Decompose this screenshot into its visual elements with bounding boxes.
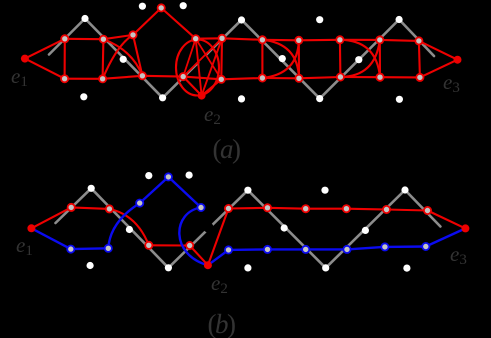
white dot isolated below peak 2 (b) <box>244 264 251 271</box>
edge B9-B10 (a) <box>380 76 420 78</box>
edge T8-B8 (a) <box>339 40 342 77</box>
edge T7-B7 (a) <box>298 40 300 78</box>
edge B5-B6 (a) <box>221 78 262 79</box>
blue edge B9-B10 (b) <box>385 245 426 248</box>
edge T1-B1 (a) <box>64 39 66 79</box>
edge B4-B5 (a) <box>183 77 221 80</box>
red edge T5-T6 (b) <box>229 207 268 210</box>
edge T3-P (a) <box>133 8 161 35</box>
red edge e2-T5 (b) <box>208 209 229 266</box>
vertex T2 (a), gray fill red ring <box>100 36 107 43</box>
white dot isolated below peak 1 (b) <box>87 262 94 269</box>
white dot isolated left of tent (a) <box>139 3 146 10</box>
edge T10-B10 (a) <box>419 41 420 78</box>
vertex B1 (a), gray fill red ring <box>61 75 68 82</box>
white dot zigzag mid 3 (b) <box>362 227 369 234</box>
blue edge e2-B5 (b) <box>208 250 229 265</box>
edge B3-B4 (a) <box>142 75 183 78</box>
vertex B4 (a), gray fill red ring <box>180 73 187 80</box>
blue edge B8-B9 (b) <box>347 247 385 250</box>
edge T6-B6 (a) <box>261 40 263 78</box>
vertex B2 (b) <box>105 245 112 252</box>
edge T4-e2 (a) <box>196 39 202 96</box>
vertex B7 (b) <box>302 246 309 253</box>
circle edge around e2 cluster (a) <box>176 40 219 96</box>
vertex T10 (a), gray fill red ring <box>415 37 422 44</box>
vertex T9 (a), gray fill red ring <box>376 36 383 43</box>
vertex B8 (b) <box>343 246 350 253</box>
hidden node gap on zigzag (b) <box>203 222 213 232</box>
endpoint vertex e3 (b), solid red <box>461 224 469 232</box>
vertex B7 (a), gray fill red ring <box>295 75 302 82</box>
curved diagonal T8-B9 / T9-B8 (a) (bulge upper-right) <box>340 40 380 77</box>
white dot isolated above valley 2 (a) <box>316 16 323 23</box>
vertex T9 (b) <box>383 206 390 213</box>
vertex T4 (a), gray fill red ring <box>192 35 199 42</box>
vertex B1 (b) <box>67 246 74 253</box>
edge T4-B5 (a) <box>196 39 222 80</box>
white dot isolated below peak 3 (a) <box>396 96 403 103</box>
edge T5-e2 (a) <box>202 38 222 95</box>
vertex B10 (b) <box>422 243 429 250</box>
red edge e1-T1 (b) <box>31 207 71 228</box>
gray zigzag chain, figure (a) <box>49 19 434 99</box>
edge B2-B3 (a) <box>103 76 143 79</box>
vertex T6 (a), gray fill red ring <box>259 36 266 43</box>
endpoint vertex e2 (a), solid red <box>198 92 206 100</box>
white dot zigzag mid 1 (a) <box>120 56 127 63</box>
red edge T1-T2 (b) <box>71 207 109 209</box>
edge T5-B4 (a) <box>183 38 222 76</box>
white dot zigzag peak 2 (b) <box>244 187 251 194</box>
white dot isolated below peak 1 (a) <box>80 93 87 100</box>
vertex T6 (b) <box>264 204 271 211</box>
svg-text:(b): (b) <box>208 309 236 338</box>
vertex T3 (b) <box>136 200 143 207</box>
vertex T2 (b) <box>106 205 113 212</box>
blue curved edge T4-e2 (b), big C-bulge to the left <box>179 208 208 266</box>
vertex T7 (b) <box>302 205 309 212</box>
edge B4-e2 (a) <box>183 77 201 96</box>
edge B1-B2 (a) <box>65 78 103 80</box>
svg-text:(a): (a) <box>213 134 241 164</box>
vertex T5 (b) <box>225 205 232 212</box>
vertex T1 (a), gray fill red ring <box>61 35 68 42</box>
vertex B9 (b) <box>381 243 388 250</box>
vertex B4 (b) <box>186 242 193 249</box>
white dot zigzag mid 1 (b) <box>126 226 133 233</box>
vertex P (a), gray fill red ring <box>158 4 165 11</box>
vertex T8 (a), gray fill red ring <box>336 36 343 43</box>
endpoint vertex e3 (a), solid red <box>454 56 462 64</box>
white dot zigzag mid 3 (a) <box>355 56 362 63</box>
white dot isolated below peak 2 (a) <box>238 95 245 102</box>
white dot isolated below peak 3 (b) <box>403 265 410 272</box>
edge T7-T8 (a) <box>299 39 340 42</box>
edge T9-B9 (a) <box>379 40 381 77</box>
edge T6-T7 (a) <box>262 39 298 42</box>
white dot zigzag peak 2 (a) <box>238 16 245 23</box>
vertex T8 (b) <box>343 205 350 212</box>
blue edge B7-B8 (b) <box>306 248 347 250</box>
hidden node gap on zigzag (a) <box>198 54 207 63</box>
curved diagonal T8-B9 / T9-B8 (a) <box>340 40 379 77</box>
edge T2-T3 (a) <box>103 35 133 39</box>
edge B10-e3 (a) <box>420 60 458 78</box>
curved diagonal T2-B3 / T3-B2 (a) (bulge upper-right) <box>103 39 142 76</box>
vertex T1 (b) <box>68 204 75 211</box>
vertex T5 (a), gray fill red ring <box>218 35 225 42</box>
edge T2-B2 (a) <box>102 39 105 79</box>
gray zigzag chain, figure (b) <box>56 188 441 268</box>
vertex P (b) <box>165 173 172 180</box>
blue edge peak-T4 (b) <box>168 177 201 208</box>
white dot isolated above valley 2 (b) <box>321 187 328 194</box>
blue edge B5-B6 (b) <box>229 248 268 251</box>
white dot zigzag peak 3 (a) <box>396 16 403 23</box>
vertex B10 (a), gray fill red ring <box>416 74 423 81</box>
vertex T7 (a), gray fill red ring <box>295 37 302 44</box>
blue edge B1-B2 (b) <box>71 247 109 250</box>
blue edge B10-e3 (b) <box>426 228 466 246</box>
red edge T7-T8 (b) <box>306 208 347 210</box>
white dot isolated right of tent (b) <box>186 172 193 179</box>
vertex B5 (b) <box>225 246 232 253</box>
edge T4-B4 (a) <box>183 39 196 77</box>
red edge T9-T10 (b) <box>387 210 428 211</box>
edge B7-B8 (a) <box>299 77 340 78</box>
edge T3-B3 (a) <box>133 35 142 76</box>
edge B6-B7 (a) <box>262 77 299 79</box>
blue curved edge B2-T3 (b) <box>108 203 139 248</box>
edge T5-T6 (a) <box>222 38 262 40</box>
edge B5-e2 (a) <box>202 79 222 95</box>
red edge T6-T7 (b) <box>268 207 306 210</box>
edge T10-e3 (a) <box>419 41 458 60</box>
endpoint vertex e2 (b), solid red <box>204 261 212 269</box>
edge T5-B5 (a) <box>220 38 223 79</box>
curved diagonal T6-B7 / T7-B6 (a) (bulge upper-right) <box>262 40 299 79</box>
vertex B6 (b) <box>264 246 271 253</box>
white dot zigzag peak 1 (b) <box>88 185 95 192</box>
endpoint vertex e1 (a), solid red <box>21 55 29 63</box>
blue edge B6-B7 (b) <box>268 248 306 250</box>
white dot zigzag mid 2 (a) <box>279 55 286 62</box>
white dot zigzag mid 2 (b) <box>281 224 288 231</box>
white dot zigzag peak 3 (b) <box>401 186 408 193</box>
vertex T10 (b) <box>424 207 431 214</box>
edge T1-T2 (a) <box>65 38 104 41</box>
red edge T10-e3 (b) <box>428 211 466 229</box>
white dot zigzag valley 2 (b) <box>322 264 329 271</box>
white dot zigzag valley 2 (a) <box>316 95 323 102</box>
red edge B3-B4 (b) <box>149 244 190 246</box>
white dot zigzag peak 1 (a) <box>81 15 88 22</box>
white dot isolated right of tent (a) <box>180 2 187 9</box>
vertex B3 (a), gray fill red ring <box>139 72 146 79</box>
edge T9-T10 (a) <box>380 40 419 41</box>
vertex B6 (a), gray fill red ring <box>259 74 266 81</box>
red edge B4-e2 (b) <box>190 246 208 266</box>
vertex B3 (b) <box>145 242 152 249</box>
edge T8-T9 (a) <box>340 39 380 41</box>
white dot zigzag valley 1 (a) <box>159 94 166 101</box>
white dot zigzag valley 1 (b) <box>165 264 172 271</box>
edge P-T4 (a) <box>161 8 196 39</box>
vertex B2 (a), gray fill red ring <box>99 75 106 82</box>
white dot isolated left of tent (b) <box>145 172 152 179</box>
curved diagonal T2-B3 / T3-B2 (a) <box>103 35 133 79</box>
blue edge e1-B1 (b) <box>31 228 70 249</box>
blue edge T3-peak (b) <box>140 177 169 203</box>
curved diagonal T6-B7 / T7-B6 (a) <box>262 40 298 78</box>
vertex B8 (a), gray fill red ring <box>337 73 344 80</box>
endpoint vertex e1 (b), solid red <box>27 224 35 232</box>
red curved edge T2-B3 (b) <box>109 209 148 245</box>
vertex T4 (b) <box>197 204 204 211</box>
red edge T8-T9 (b) <box>346 208 386 211</box>
edge T4-T5 (a) <box>196 37 222 40</box>
edge e1-B1 (a) <box>25 59 65 79</box>
vertex B9 (a), gray fill red ring <box>376 74 383 81</box>
edge B8-B9 (a) <box>340 76 380 78</box>
vertex T3 (a), gray fill red ring <box>129 31 136 38</box>
edge e1-T1 (a) <box>25 39 65 59</box>
vertex B5 (a), gray fill red ring <box>218 76 225 83</box>
